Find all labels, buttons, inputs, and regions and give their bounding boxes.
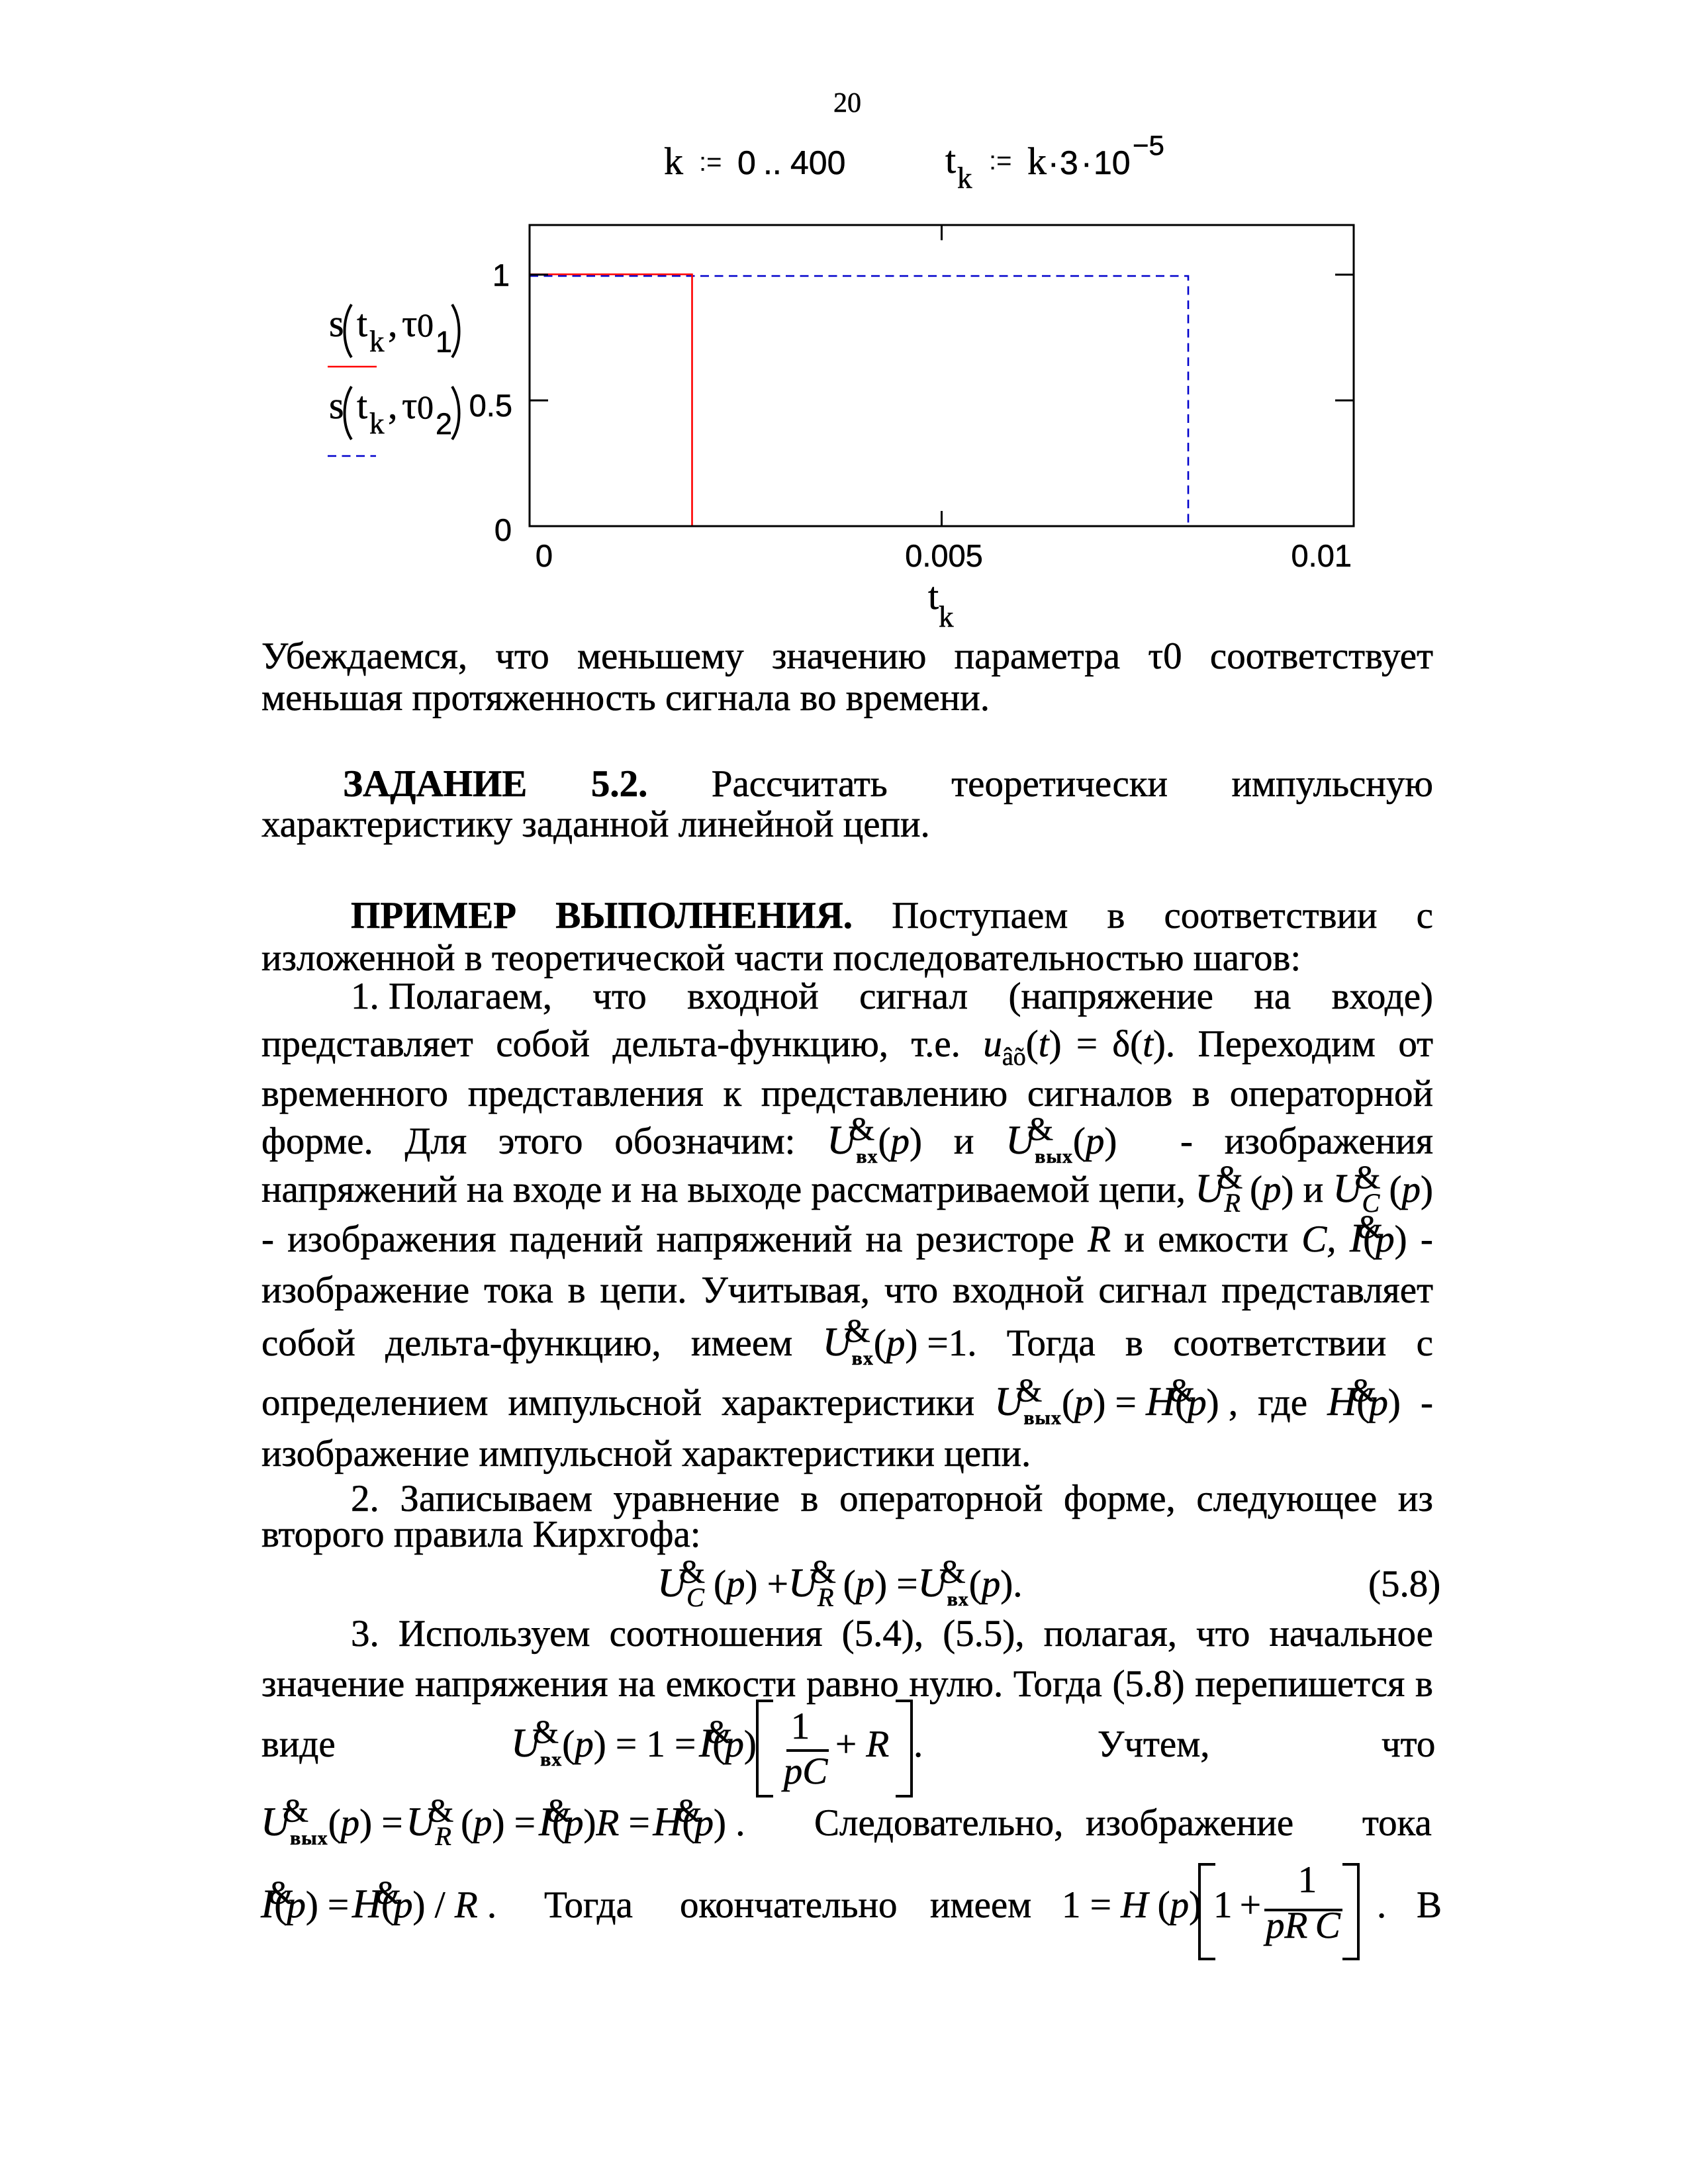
page number bbox=[821, 89, 874, 117]
svg-text:..: .. bbox=[763, 144, 782, 181]
svg-text:0: 0 bbox=[417, 388, 434, 426]
ZADANIE 5.2 bbox=[343, 763, 1433, 805]
svg-text:1: 1 bbox=[436, 325, 452, 359]
svg-text:3: 3 bbox=[1060, 144, 1078, 181]
svg-text:,: , bbox=[388, 302, 398, 345]
svg-text:−5: −5 bbox=[1133, 130, 1164, 161]
svg-text:k: k bbox=[664, 140, 683, 183]
svg-text:0: 0 bbox=[737, 144, 756, 181]
item 2 paragraph bbox=[351, 1478, 1433, 1520]
svg-text:s: s bbox=[329, 302, 344, 345]
equation (5.8) bbox=[657, 1563, 1022, 1606]
line Uvyh = ... bbox=[261, 1802, 745, 1844]
svg-text:k: k bbox=[1027, 140, 1047, 183]
svg-text::=: := bbox=[989, 146, 1011, 175]
line with big formula (vide) bbox=[261, 1723, 336, 1766]
item 3 paragraph bbox=[351, 1613, 1433, 1655]
svg-text:t: t bbox=[945, 138, 956, 181]
svg-text:2: 2 bbox=[436, 407, 452, 441]
svg-text:10: 10 bbox=[1094, 144, 1131, 181]
svg-text:k: k bbox=[939, 600, 954, 633]
svg-text:0.01: 0.01 bbox=[1291, 538, 1352, 573]
svg-text:t: t bbox=[357, 302, 367, 345]
item 1 paragraph bbox=[351, 976, 1433, 1018]
svg-text:0.5: 0.5 bbox=[469, 388, 512, 423]
svg-text:s: s bbox=[329, 384, 344, 427]
svg-text:0: 0 bbox=[536, 538, 553, 573]
red trace tau0_1 bbox=[530, 275, 692, 526]
line I(p)=H(p)/R bbox=[261, 1884, 496, 1927]
svg-text:k: k bbox=[369, 407, 385, 440]
svg-text:τ: τ bbox=[402, 384, 417, 427]
svg-text:t: t bbox=[928, 574, 939, 617]
paragraph: Ubezhdaemsya bbox=[261, 635, 1433, 678]
svg-text:,: , bbox=[388, 384, 398, 427]
svg-text:0.005: 0.005 bbox=[905, 538, 983, 573]
svg-text:·: · bbox=[1048, 144, 1059, 181]
legend 2: s(t_k,tau0_2) bbox=[329, 384, 452, 441]
PRIMER bbox=[351, 895, 1433, 937]
axis tick labels bbox=[469, 257, 1352, 573]
plot frame bbox=[530, 225, 1354, 526]
svg-text:0: 0 bbox=[417, 306, 434, 343]
blue dashed trace tau0_2 bbox=[530, 276, 1188, 525]
svg-text:t: t bbox=[357, 384, 367, 427]
svg-text:1: 1 bbox=[492, 257, 510, 293]
svg-text::=: := bbox=[699, 148, 722, 177]
mathcad line + plot bbox=[0, 0, 1688, 668]
svg-text:·: · bbox=[1081, 144, 1092, 181]
svg-text:τ: τ bbox=[402, 302, 417, 345]
svg-text:k: k bbox=[369, 325, 385, 358]
legend 1: s(t_k,tau0_1) bbox=[329, 302, 452, 359]
svg-text:0: 0 bbox=[494, 512, 512, 547]
svg-text:k: k bbox=[957, 161, 972, 195]
svg-text:400: 400 bbox=[790, 144, 845, 181]
